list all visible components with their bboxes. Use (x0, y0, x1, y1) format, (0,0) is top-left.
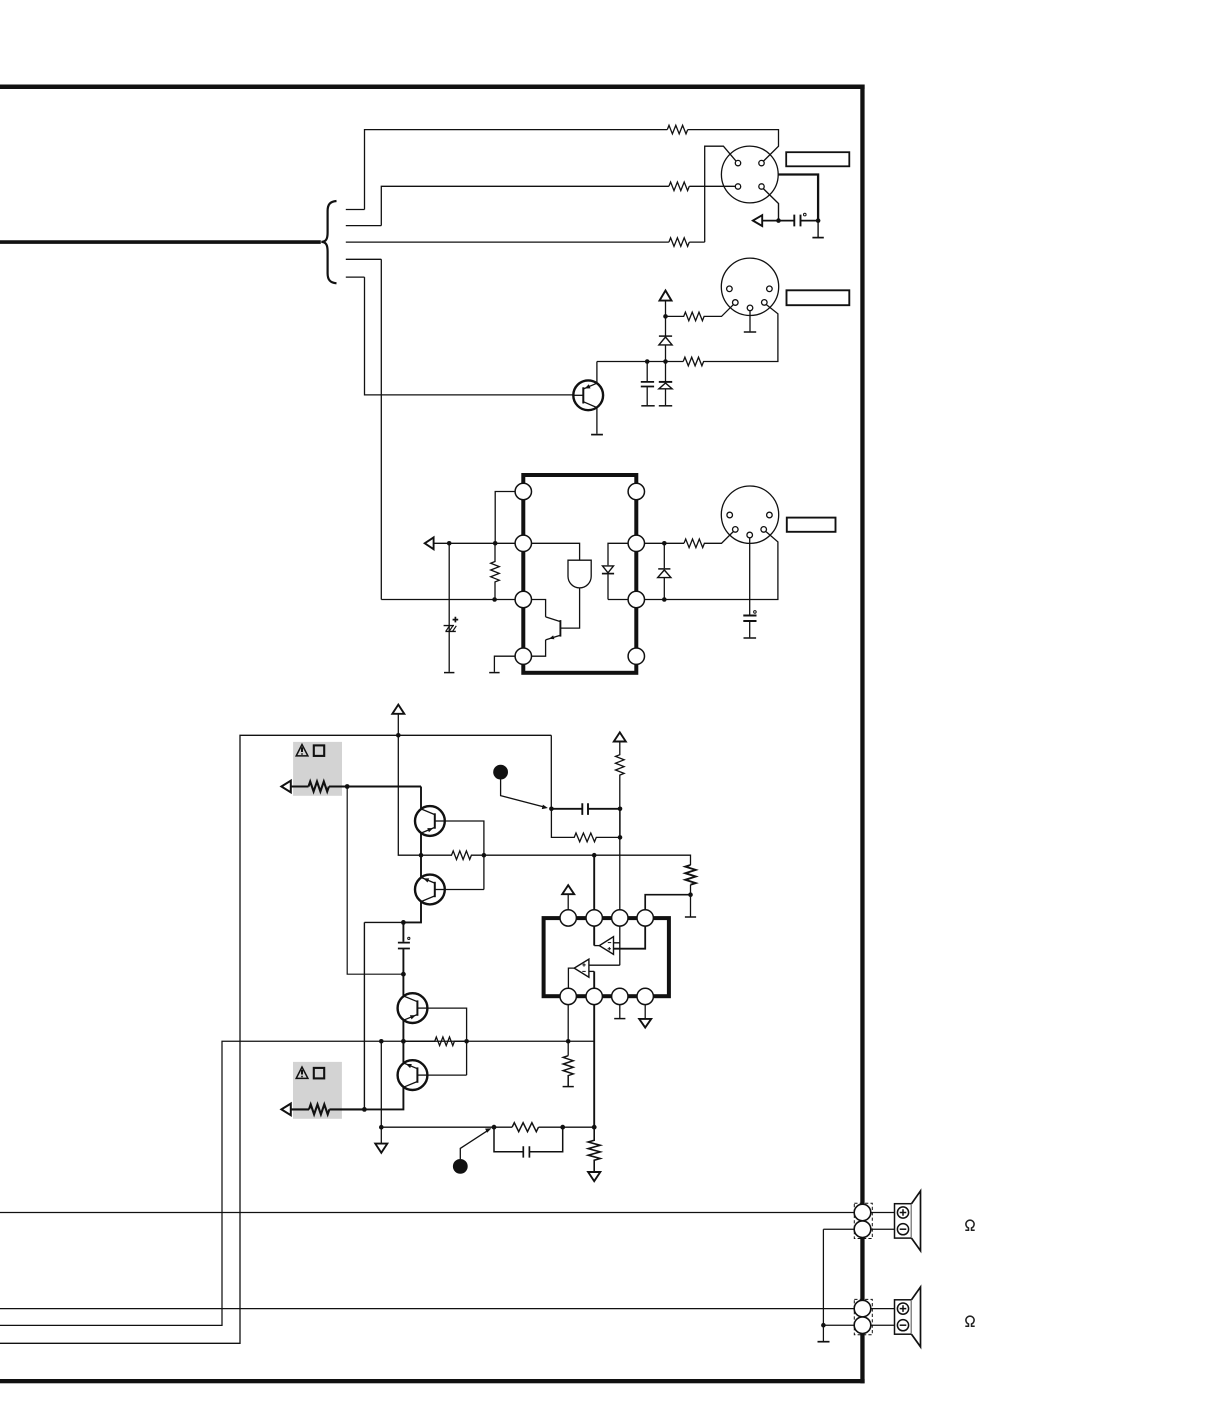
node dot (379, 1039, 384, 1044)
node dot (688, 892, 693, 897)
resistor R7 (684, 532, 733, 548)
transistor Q2 (415, 875, 445, 905)
node dot (401, 1039, 406, 1044)
node dot (776, 218, 781, 223)
ground DIN1 (817, 221, 819, 238)
wire B4 (644, 1005, 646, 1019)
node dot (618, 807, 623, 812)
speaker SP2 wire minus (823, 1324, 854, 1326)
node dot (362, 1107, 367, 1112)
wire L2 row (434, 542, 515, 544)
power vertical to emitter node (398, 735, 421, 855)
IC1 pin L2 (515, 535, 531, 551)
neg arrow N3 (588, 1172, 600, 1181)
bar termination L4 (489, 672, 499, 674)
IC1 internal gate output (561, 588, 580, 628)
resistor R9 (616, 742, 625, 910)
DIN2 pin R (767, 286, 773, 292)
IC2 pin T3 (612, 910, 628, 926)
DIN2 pin L (727, 286, 733, 292)
wire B3 gnd (619, 1005, 621, 1019)
power rail from page left (0, 735, 551, 1343)
electrolytic capacitor C4 (448, 543, 450, 672)
resistor R16 (309, 782, 329, 792)
brace (321, 201, 336, 283)
DIN2 pin LL (733, 300, 739, 306)
brace stub 1 (346, 209, 365, 211)
capacitor C6 (402, 922, 404, 941)
signal arrow A2 (425, 537, 434, 549)
node dot (401, 920, 406, 925)
IC2 op-amp OP2 (574, 959, 589, 977)
power arrow P2 (392, 705, 404, 714)
wire B1 ext (567, 1005, 569, 1056)
transistor Q3 (398, 993, 428, 1023)
resistor R15 (588, 1127, 600, 1172)
IC2 pin B3 (612, 988, 628, 1004)
wire node row y361 (597, 361, 683, 363)
label box 1 (786, 152, 849, 166)
resistor R4 (666, 305, 734, 321)
DIN3 pin R (767, 512, 773, 518)
long wire y855 (484, 855, 691, 865)
wire line2 to DIN1 pin LL (689, 185, 736, 187)
tone network feed (550, 735, 552, 809)
DIN3 connector shell (721, 486, 778, 543)
transistor Q1 (420, 787, 422, 810)
bar termination R11 (685, 916, 696, 918)
wire line1 up and right (365, 130, 668, 210)
IC1 pin L3 (515, 591, 531, 607)
wire line4 vertical to IC1 (380, 259, 382, 599)
resistor R12 (403, 1037, 466, 1046)
signal arrow A1 (762, 220, 779, 222)
warn square icon (314, 1068, 324, 1079)
IC2 pin T4 (637, 910, 653, 926)
emitter node wire y922 (364, 921, 403, 923)
wire L4 (494, 656, 515, 672)
speaker SP1 wire plus (0, 1212, 854, 1214)
power arrow P1 (660, 291, 672, 301)
IC2 op2 minus to B2 (589, 970, 594, 972)
IC1 pin R3 (628, 591, 644, 607)
speaker SP2 (895, 1300, 912, 1334)
IC2 pin T1 (560, 910, 576, 926)
bar termination B3 (614, 1018, 625, 1020)
node dot (492, 1125, 497, 1130)
adjust knob K2 (453, 1159, 468, 1174)
DIN2 pin LR (762, 300, 768, 306)
DIN1 pin UL (735, 160, 740, 165)
node dot (592, 853, 597, 858)
DIN3 pin BC (747, 532, 753, 538)
bar termination D2 (659, 405, 672, 407)
feedback vertical from box1 node (347, 787, 403, 975)
DIN1 pin LR (759, 184, 764, 189)
wire T2 ext (593, 855, 595, 910)
resistor R8 (421, 851, 484, 860)
long wire y1041 from page left (0, 1041, 594, 1325)
capacitor C2 (646, 362, 648, 382)
vertical link box2 to emitter node (363, 922, 365, 1109)
signal arrow A3 (281, 781, 290, 793)
bar termination R13 (563, 1086, 574, 1088)
signal arrow A4 (281, 1104, 290, 1116)
input bus thick wire (0, 240, 321, 244)
IC2 pin B1 (560, 988, 576, 1004)
impedance label SP1 (965, 1220, 974, 1230)
DIN3 pin LR (761, 527, 767, 533)
neg arrow N2 (639, 1019, 651, 1028)
resistor R14 (512, 1123, 538, 1132)
IC1 pin L4 (515, 648, 531, 664)
neg arrow N1 (380, 1127, 382, 1143)
node dot (663, 359, 668, 364)
speaker SP1 (895, 1204, 912, 1238)
DIN1 pin LL (735, 184, 740, 189)
node dot (464, 1039, 469, 1044)
wire R3 row to DIN3 (645, 532, 778, 600)
warn triangle icon (296, 745, 308, 756)
IC2 pin B2 (586, 988, 602, 1004)
warn square icon (314, 745, 324, 756)
node dot (493, 541, 498, 546)
wire L1 to L2 (495, 492, 515, 544)
DIN3 pin L (727, 512, 733, 518)
resistor R10 (551, 809, 620, 842)
base coupling wires Q1 Q2 (445, 821, 484, 890)
IC1 pin R1 (628, 483, 644, 499)
node dot (379, 1125, 384, 1130)
bar termination C3 (744, 637, 757, 639)
node dot (447, 541, 452, 546)
wire line2 (381, 186, 669, 225)
brace stub 5 (346, 276, 365, 278)
warn triangle icon (296, 1067, 308, 1078)
wire to Q4 emitter (329, 1108, 364, 1110)
capacitor C7 branch (494, 1127, 563, 1152)
base coupling wires Q3 Q4 (427, 1008, 466, 1075)
SP2 terminal circles (854, 1299, 872, 1334)
transistor T1 (573, 380, 603, 410)
IC1 internal diode D3 (608, 543, 628, 565)
DIN2 pin BC ground (749, 311, 751, 332)
wire T4 to R11 node (645, 895, 690, 910)
IC2 box U2 (544, 918, 669, 996)
IC2 op-amp OP1 (599, 937, 613, 955)
gnd branch vertical (380, 1041, 382, 1127)
bar termination T1 emitter (591, 434, 603, 436)
label box 2 (787, 290, 850, 305)
wire R2 row (645, 542, 685, 544)
capacitor C5 (551, 808, 620, 810)
node dot (566, 1039, 571, 1044)
IC2 internal T2 op1 out (593, 926, 595, 946)
label box 3 (787, 518, 836, 532)
wire to Q1 collector (329, 785, 421, 787)
node dot (492, 597, 497, 602)
IC1 box U1 (523, 475, 636, 673)
diode D1 (665, 316, 667, 335)
brace stub 2 (346, 225, 382, 227)
DIN2 connector shell (721, 258, 778, 315)
node dot (396, 733, 401, 738)
resistor R11 (685, 865, 695, 885)
resistor R13 (563, 1056, 573, 1087)
node dot (618, 835, 623, 840)
wire line1 to DIN1 pin UR (688, 130, 779, 161)
IC2 internal T4 to op1 plus (614, 926, 646, 949)
node dot (401, 972, 406, 977)
resistor R6 (491, 543, 500, 599)
bottom RC row (381, 1126, 512, 1128)
wire T1 collector to node (596, 362, 598, 384)
wire B2 ext (593, 1005, 595, 1128)
external diode D4 (663, 543, 665, 568)
wire T1 emitter to bar (596, 408, 598, 434)
IC1 pin R2 (628, 535, 644, 551)
wire L3 row (381, 599, 515, 601)
IC1 internal gate (532, 543, 580, 560)
resistor R5 (683, 305, 778, 366)
diode D2 (665, 362, 667, 382)
bar termination C4 (444, 672, 454, 674)
IC1 pin R4 (628, 648, 644, 664)
IC1 pin L1 (515, 483, 531, 499)
transistor Q4 (402, 1041, 404, 1063)
DIN1 pin LR wire to node (763, 189, 778, 221)
node dot (645, 359, 650, 364)
impedance label SP2 (965, 1316, 974, 1326)
IC2 pin T2 (586, 910, 602, 926)
node dot (419, 853, 424, 858)
IC1 internal transistor Q5 (559, 620, 561, 637)
node dot (549, 807, 554, 812)
node dot (592, 1125, 597, 1130)
node dot (345, 784, 350, 789)
power arrow P3 (614, 732, 626, 741)
resistor R1 (667, 125, 687, 134)
node dot (821, 1323, 826, 1328)
SP1 terminal circles (854, 1203, 872, 1238)
DIN1 connector shell (721, 146, 778, 203)
resistor R17 (309, 1104, 329, 1114)
resistor R3 on line3 (669, 238, 689, 247)
speaker SP2 wire plus (0, 1308, 854, 1310)
gray warn box 1 (293, 742, 342, 796)
speaker ground (822, 1325, 824, 1341)
node dot (663, 314, 668, 319)
speaker SP1 wire minus (823, 1229, 854, 1325)
IC2 op2 out to B1 (568, 968, 574, 988)
IC2 pin B4 (637, 988, 653, 1004)
node dot (482, 853, 487, 858)
node dot (662, 541, 667, 546)
brace stub 3 / wire to DIN1 (346, 241, 705, 243)
capacitor C1 (779, 220, 819, 222)
page border bottom (0, 1379, 865, 1383)
bar termination C2 (641, 405, 654, 407)
wire line5 to transistor T1 base (365, 277, 574, 395)
power arrow P4 (562, 885, 574, 894)
page border right (860, 85, 864, 1384)
DIN1 pin UR (759, 160, 764, 165)
DIN2 pin BC (747, 305, 753, 311)
adjust knob K1 (493, 765, 508, 780)
gray warn box 2 (293, 1062, 342, 1119)
page border top (0, 85, 865, 90)
node dot (662, 597, 667, 602)
brace stub 4 (346, 258, 382, 260)
IC2 internal T3 net (589, 926, 620, 965)
node dot (560, 1125, 565, 1130)
DIN1 sleeve wire (778, 175, 818, 221)
node dot (816, 218, 821, 223)
wire line3 to DIN1 pin UL (705, 146, 736, 242)
resistor R2 (669, 182, 689, 191)
capacitor C3 (749, 538, 751, 615)
DIN3 pin LL (733, 527, 739, 533)
